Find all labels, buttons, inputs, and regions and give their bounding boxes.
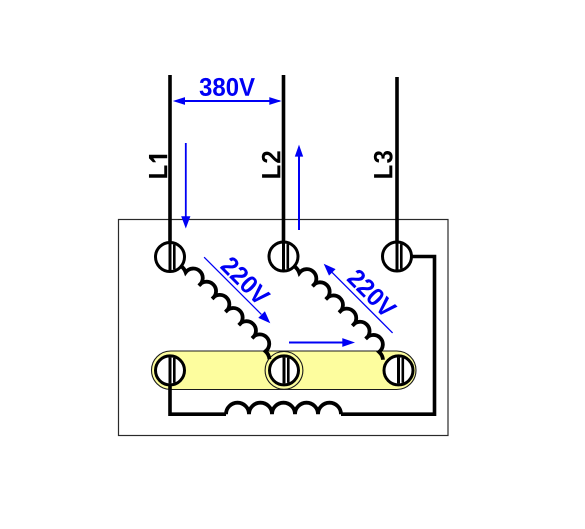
terminal V1 (top, L2) xyxy=(269,242,298,271)
current arrow up (beside L2) xyxy=(295,145,303,230)
wire from bottom-left terminal to bottom bus xyxy=(170,385,226,414)
winding W3 (bottom horizontal coil) xyxy=(226,403,341,415)
label L3 xyxy=(374,151,393,178)
220V arrow on W2 (points up-left) xyxy=(324,264,393,333)
terminal box outline xyxy=(119,220,449,436)
wire from coil W3 right end to L3 terminal (right side) xyxy=(341,257,435,415)
star-point link bar (yellow) xyxy=(152,351,417,390)
terminal U2b (bottom middle) xyxy=(270,356,299,385)
terminal U1 (top, L1) xyxy=(156,243,185,272)
terminal W1t (top, L3) xyxy=(383,242,412,271)
380V dimension arrow xyxy=(173,97,282,105)
220V arrow on W1 (points down-right) xyxy=(204,257,270,323)
label 220V on W2 xyxy=(346,268,398,320)
current arrow down (beside L1) xyxy=(181,143,190,229)
wire L1 xyxy=(168,75,172,257)
terminal V2b (bottom right) xyxy=(384,356,413,385)
wire L3 xyxy=(395,77,399,257)
current arrow right (above bottom bus) xyxy=(289,338,355,347)
winding W1 (L1 terminal to bottom-middle terminal) xyxy=(178,259,279,359)
thin ring around bottom-middle terminal xyxy=(265,352,303,390)
terminal W2b (bottom left) xyxy=(156,356,185,385)
winding W2 (L2 terminal to bottom-right terminal) xyxy=(292,260,393,360)
label L1 xyxy=(149,155,167,178)
wire L2 xyxy=(282,75,286,257)
label 380V xyxy=(200,78,255,96)
label 220V on W1 xyxy=(220,255,272,307)
label L2 xyxy=(262,151,281,177)
